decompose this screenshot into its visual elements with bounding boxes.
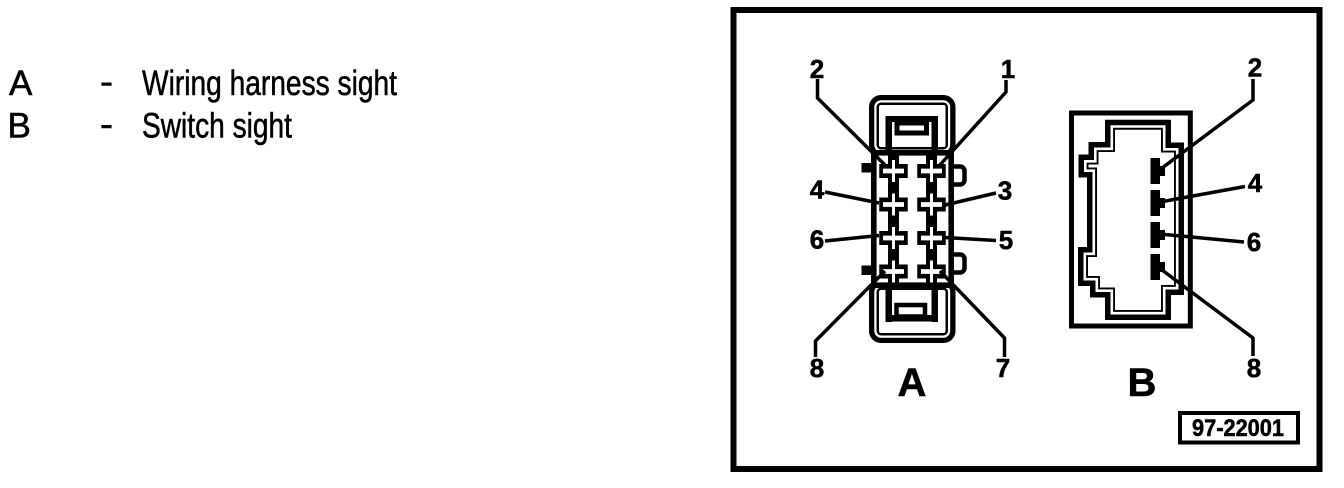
svg-text:A: A bbox=[9, 64, 33, 103]
svg-text:Wiring harness sight: Wiring harness sight bbox=[142, 64, 397, 103]
svg-text:8: 8 bbox=[1247, 353, 1261, 383]
svg-text:B: B bbox=[8, 107, 31, 146]
svg-text:-: - bbox=[100, 105, 113, 144]
leader wire to pin 6 (A) bbox=[825, 236, 879, 242]
leader wire to pin 8 (B) bbox=[1158, 267, 1253, 356]
connector A right keying lug lower bbox=[951, 255, 965, 273]
connector A pin 3 bbox=[917, 188, 946, 222]
svg-text:-: - bbox=[100, 63, 113, 102]
svg-text:1: 1 bbox=[1001, 54, 1015, 84]
diagram border frame bbox=[734, 10, 1320, 469]
connector A pin 4 bbox=[879, 188, 908, 222]
drawing number box bbox=[1180, 413, 1298, 443]
connector B pin 8 bbox=[1151, 254, 1166, 280]
connector B pin 4 bbox=[1151, 190, 1166, 216]
svg-text:B: B bbox=[1128, 361, 1157, 405]
svg-text:Switch sight: Switch sight bbox=[142, 107, 292, 146]
svg-text:5: 5 bbox=[999, 225, 1013, 255]
leader wire to pin 1 (A) bbox=[939, 80, 1006, 166]
leader wire to pin 4 (A) bbox=[825, 192, 879, 203]
svg-text:3: 3 bbox=[998, 176, 1012, 206]
leader wire to pin 7 (A) bbox=[940, 271, 1005, 357]
svg-text:97-22001: 97-22001 bbox=[1192, 415, 1284, 442]
connector A pin 2 bbox=[879, 154, 908, 188]
leader wire to pin 8 (A) bbox=[816, 271, 886, 357]
connector A pin 8 bbox=[879, 255, 908, 289]
connector A top cap latch window bbox=[897, 123, 927, 133]
connector A bottom cap housing bbox=[874, 285, 951, 338]
svg-text:4: 4 bbox=[1248, 168, 1263, 198]
connector B housing profile bbox=[1083, 125, 1179, 315]
leader wire to pin 2 (B) bbox=[1158, 79, 1253, 171]
svg-text:4: 4 bbox=[810, 175, 825, 205]
connector A top cap housing bbox=[874, 100, 951, 152]
connector A bottom cap U bracket bbox=[886, 287, 939, 322]
svg-text:8: 8 bbox=[810, 353, 824, 383]
connector A pin 1 bbox=[917, 154, 946, 188]
connector A right keying lug upper bbox=[951, 167, 965, 185]
connector A bottom cap window bbox=[897, 305, 926, 317]
connector B pin 2 bbox=[1151, 158, 1166, 184]
connector A body bbox=[874, 153, 951, 285]
connector B outer box bbox=[1072, 113, 1191, 326]
connector A top cap latch bracket bbox=[886, 116, 939, 152]
svg-text:6: 6 bbox=[810, 225, 824, 255]
leader wire to pin 5 (A) bbox=[945, 238, 996, 241]
svg-text:2: 2 bbox=[810, 54, 824, 84]
svg-text:7: 7 bbox=[996, 353, 1010, 383]
connector A pin 7 bbox=[917, 255, 946, 289]
connector A pin 6 bbox=[879, 221, 908, 255]
connector A left tab lower bbox=[862, 266, 873, 276]
leader wire to pin 4 (B) bbox=[1160, 187, 1245, 203]
connector B pin 6 bbox=[1151, 222, 1166, 248]
svg-text:2: 2 bbox=[1248, 53, 1262, 83]
leader wire to pin 2 (A) bbox=[818, 79, 887, 166]
svg-text:A: A bbox=[898, 361, 927, 405]
leader wire to pin 6 (B) bbox=[1160, 234, 1244, 242]
connector A pin 5 bbox=[917, 221, 946, 255]
leader wire to pin 3 (A) bbox=[945, 193, 996, 205]
svg-text:6: 6 bbox=[1247, 227, 1261, 257]
connector A left tab upper bbox=[862, 163, 873, 173]
